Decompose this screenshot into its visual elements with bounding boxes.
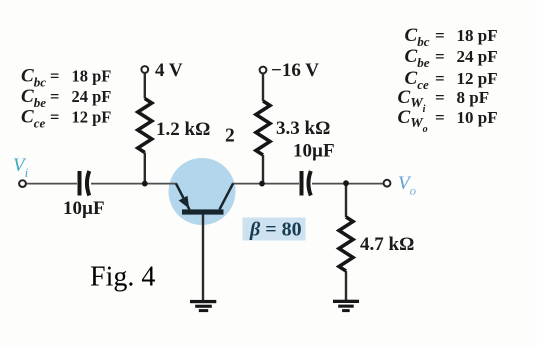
resistor R2 zigzag — [256, 101, 270, 155]
svg-text:=: = — [50, 87, 59, 106]
resistor R1 lead bottom — [144, 153, 146, 184]
svg-text:=: = — [50, 108, 59, 127]
terminal 4V — [141, 66, 148, 73]
svg-text:10 pF: 10 pF — [457, 108, 498, 127]
svg-text:=: = — [435, 108, 445, 127]
beta label box — [243, 218, 306, 241]
resistor R3 4.7k lead top — [345, 184, 347, 217]
svg-text:3.3 kΩ: 3.3 kΩ — [276, 118, 330, 139]
svg-text:=: = — [435, 47, 445, 66]
svg-text:18 pF: 18 pF — [457, 26, 498, 45]
transistor Q1 emitter lead — [176, 184, 190, 210]
ground G2 — [333, 300, 359, 312]
transistor Q1 collector lead — [220, 184, 234, 210]
junction dot node Vo — [343, 180, 349, 186]
junction dot node 1 — [142, 181, 148, 187]
capacitor C1 — [80, 171, 90, 196]
wire collector to C2 — [232, 183, 299, 185]
svg-text:12 pF: 12 pF — [72, 108, 112, 127]
wire input Vi to C1 — [26, 183, 77, 185]
resistor R3 lead bottom — [345, 271, 347, 300]
svg-text:12 pF: 12 pF — [457, 69, 498, 88]
svg-text:=: = — [50, 67, 59, 86]
terminal Vo — [384, 180, 391, 187]
svg-text:=: = — [435, 69, 445, 88]
transistor Q1 emitter arrow — [179, 196, 190, 209]
left capacitance list — [21, 66, 111, 131]
svg-text:Fig. 4: Fig. 4 — [90, 262, 155, 293]
terminal -16V — [260, 67, 267, 74]
svg-text:4.7 kΩ: 4.7 kΩ — [360, 234, 414, 255]
ground G1 — [190, 300, 216, 312]
resistor R3 zigzag — [339, 217, 353, 271]
transistor Q1 base bar — [182, 209, 224, 214]
svg-text:24 pF: 24 pF — [457, 47, 498, 66]
right capacitance list — [398, 25, 498, 135]
svg-text:−16 V: −16 V — [271, 60, 319, 81]
junction dot node 2 — [259, 181, 265, 187]
terminal Vi — [19, 180, 26, 187]
resistor R2 3.3k lead top — [262, 73, 264, 101]
svg-text:10µF: 10µF — [63, 198, 105, 219]
svg-text:2: 2 — [225, 126, 235, 147]
resistor R2 lead bottom — [262, 155, 264, 184]
svg-text:β = 80: β = 80 — [249, 219, 302, 241]
resistor R1 1.2k lead top — [144, 73, 146, 99]
svg-text:24 pF: 24 pF — [72, 87, 112, 106]
resistor R1 zigzag — [138, 99, 152, 153]
capacitor C2 — [302, 171, 311, 196]
svg-text:=: = — [435, 26, 445, 45]
wire C2 to Vo — [312, 183, 384, 185]
transistor Q1 base lead — [202, 215, 204, 301]
svg-text:10µF: 10µF — [293, 141, 335, 162]
svg-text:8 pF: 8 pF — [457, 88, 490, 107]
wire C1 to emitter — [91, 183, 177, 185]
svg-text:18 pF: 18 pF — [72, 67, 112, 86]
svg-text:=: = — [435, 88, 445, 107]
svg-text:4 V: 4 V — [155, 60, 183, 81]
svg-text:1.2 kΩ: 1.2 kΩ — [156, 119, 210, 140]
transistor Q1 circle highlight — [169, 158, 236, 225]
